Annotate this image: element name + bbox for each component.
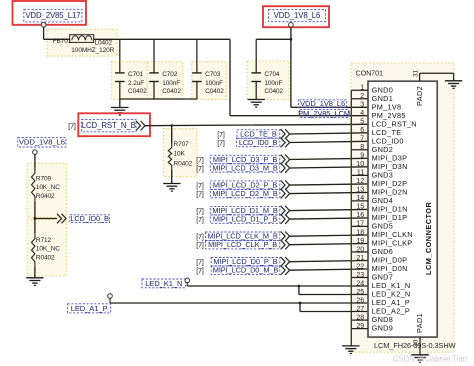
wire LCD_TE_B to pin 6 (290, 133, 368, 134)
highlight box around R712 (27, 220, 66, 276)
svg-text:23: 23 (356, 272, 364, 279)
capacitor C702 100nF (149, 39, 159, 99)
junction LED_K1/K2 (298, 285, 301, 288)
svg-text:[7]: [7] (68, 123, 76, 130)
svg-text:R0402: R0402 (174, 160, 193, 167)
wire R707 to ground (171, 169, 173, 183)
pin 15 MIPI_D1N (356, 204, 407, 214)
wire LED_K1_N to pin 24 (187, 285, 368, 287)
svg-text:15: 15 (356, 204, 364, 211)
net label MIPI_LCD_D2_M_B (210, 189, 279, 198)
ground for pin 31 (445, 81, 462, 89)
pin 27 LED_A2_P (356, 306, 410, 316)
chevron LCD_ID0_B left (57, 214, 66, 224)
wire MIPI_LCD_D3_P_B to pin 9 (290, 158, 368, 159)
chevron MIPI_LCD_D1_M_B (281, 206, 290, 216)
ground below C701-C703 (111, 108, 128, 116)
port circle LED_K1_N (185, 278, 190, 283)
svg-text:100nF: 100nF (162, 80, 180, 87)
pin 16 MIPI_D1P (356, 212, 407, 222)
wire VDD_2V85 vertical (43, 27, 45, 40)
connector CON701 body (368, 81, 437, 337)
wire to R707 (171, 126, 173, 144)
pin 28 GND8 (351, 314, 393, 324)
chevron MIPI_LCD_D2_P_B (281, 180, 290, 190)
svg-text:100nF: 100nF (264, 80, 282, 87)
svg-text:VDD_2V85_L17: VDD_2V85_L17 (25, 11, 80, 20)
ground below bus (342, 346, 359, 354)
svg-text:R707: R707 (174, 141, 190, 148)
svg-text:LCD_ID0_B: LCD_ID0_B (239, 138, 278, 147)
svg-text:10: 10 (356, 161, 364, 168)
svg-text:10K: 10K (174, 151, 186, 158)
chevron MIPI_LCD_D3_M_B (281, 163, 290, 173)
net label VDD_1V8_L6 left (18, 138, 66, 147)
svg-text:R709: R709 (36, 175, 52, 182)
net label PM_2V85_LCM (298, 109, 350, 118)
svg-text:CSDN @Gabriel.Tian: CSDN @Gabriel.Tian (393, 355, 467, 364)
wire to ground (119, 99, 121, 108)
pin 20 GND6 (351, 246, 393, 256)
svg-text:3: 3 (360, 102, 364, 109)
chevron MIPI_LCD_CLK_P_B (281, 240, 290, 250)
svg-text:14: 14 (356, 195, 364, 202)
svg-text:LCM_CONNECTOR: LCM_CONNECTOR (424, 202, 433, 275)
svg-text:13: 13 (356, 187, 364, 194)
svg-text:LCD_RST_N_B: LCD_RST_N_B (82, 121, 136, 130)
svg-text:VDD_1V8_L6: VDD_1V8_L6 (300, 99, 345, 108)
pin 14 GND4 (351, 195, 393, 205)
svg-text:21: 21 (356, 255, 364, 262)
svg-text:PAD2: PAD2 (415, 86, 424, 106)
svg-text:[7]: [7] (196, 157, 204, 164)
pin 5 LCD_RST_N (360, 119, 417, 129)
wire MIPI_LCD_CLK_P_B to pin 19 (290, 244, 368, 245)
wire PM_2V85 rail (94, 38, 230, 40)
highlight box around R707 (164, 129, 197, 177)
junction VDD_1V8 branch (290, 38, 293, 41)
pin 29 GND9 (351, 323, 393, 333)
wire PM_2V85 to pin 4 (230, 115, 368, 117)
chevron MIPI_LCD_D0_M_B (281, 265, 290, 275)
port circle VDD_1V8_L6 left (33, 150, 38, 155)
chevron LCD_ID0_B (281, 138, 290, 148)
highlight box around C704 (247, 61, 289, 99)
wire LED_A1_P to pin 26 (110, 302, 368, 304)
svg-text:26: 26 (356, 297, 364, 304)
svg-text:19: 19 (356, 238, 364, 245)
svg-text:C701: C701 (128, 71, 144, 78)
svg-text:[7]: [7] (196, 192, 204, 199)
svg-text:[7]: [7] (196, 209, 204, 216)
wire LED_A1_P drop (109, 298, 111, 303)
svg-text:6: 6 (360, 127, 364, 134)
junction R707 tap (171, 124, 173, 126)
svg-text:VDD_1V8_L6: VDD_1V8_L6 (274, 11, 321, 20)
svg-text:2.2uF: 2.2uF (128, 80, 144, 87)
ferrite bead FB701 (70, 35, 94, 43)
highlight box around R709 (27, 163, 66, 217)
svg-text:C0402: C0402 (128, 88, 147, 95)
capacitor C703 100nF (192, 39, 202, 99)
svg-text:27: 27 (356, 306, 364, 313)
chevron MIPI_LCD_D3_P_B (281, 155, 290, 165)
red marker box around VDD_2V85_L17 (13, 1, 87, 25)
wire R712 to ground (34, 267, 36, 278)
net label MIPI_LCD_D1_M_B (210, 206, 279, 215)
pin 3 PM_1V8 (360, 102, 401, 112)
net label MIPI_LCD_D1_P_B (210, 215, 279, 224)
resistor R712 (32, 233, 35, 267)
chevron MIPI_LCD_D2_M_B (281, 189, 290, 199)
svg-text:[7]: [7] (217, 140, 225, 147)
svg-text:MIPI_LCD_D2_M_B: MIPI_LCD_D2_M_B (212, 189, 278, 198)
wire MIPI_LCD_D3_M_B to pin 10 (290, 167, 368, 168)
wire MIPI_LCD_D2_P_B to pin 12 (290, 184, 368, 185)
wire MIPI_LCD_D0_P_B to pin 21 (290, 261, 368, 262)
net label LCD_RST_N_B (82, 120, 137, 132)
pin 23 GND7 (351, 272, 393, 282)
svg-text:LED_A1_P: LED_A1_P (71, 304, 108, 313)
wire cap ground bus (120, 98, 197, 100)
wire VDD_1V8 vertical (290, 27, 292, 107)
pin 24 LED_K1_N (356, 280, 410, 290)
chevron MIPI_LCD_D1_P_B (281, 214, 290, 224)
pin 17 GND5 (351, 221, 393, 231)
svg-text:18: 18 (356, 229, 364, 236)
port circle VDD_2V85_L17 (41, 22, 46, 27)
ground for pin 30 (411, 355, 428, 363)
svg-text:C702: C702 (162, 71, 178, 78)
svg-text:[7]: [7] (196, 268, 204, 275)
svg-text:MIPI_LCD_D0_M_B: MIPI_LCD_D0_M_B (213, 266, 279, 275)
wire branch to pin 27 (300, 311, 368, 313)
svg-text:31: 31 (413, 69, 420, 77)
pin 13 MIPI_D2N (356, 187, 407, 197)
highlight box around CON701 (351, 63, 454, 352)
highlight box around C702 (147, 62, 183, 100)
svg-text:10K_NC: 10K_NC (36, 184, 60, 191)
port circle LED_A1_P (108, 294, 113, 299)
svg-text:17: 17 (356, 221, 364, 228)
net label VDD_1V8_L6 top (269, 9, 326, 21)
svg-text:1: 1 (360, 85, 364, 92)
svg-text:12: 12 (356, 178, 364, 185)
svg-text:[7]: [7] (217, 132, 225, 139)
highlight box around FB701 (47, 29, 117, 56)
pin 30 PAD1 (413, 337, 421, 355)
net label LED_A1_P (68, 304, 111, 313)
svg-text:C703: C703 (205, 71, 221, 78)
net label MIPI_LCD_D3_M_B (210, 163, 279, 172)
svg-text:PM_2V85_LCM: PM_2V85_LCM (298, 109, 350, 118)
pin 31 PAD2 (413, 69, 454, 81)
pin 22 MIPI_D0N (356, 263, 407, 273)
wire LED_K1_N drop (186, 283, 188, 287)
net label VDD_2V85_L17 (24, 9, 82, 22)
svg-text:MIPI_LCD_D1_P_B: MIPI_LCD_D1_P_B (213, 215, 277, 224)
svg-text:[7]: [7] (196, 183, 204, 190)
capacitor C701 2.2uF (115, 39, 125, 99)
svg-text:24: 24 (356, 280, 364, 287)
net label MIPI_LCD_D3_P_B (210, 155, 279, 164)
wire branch to pin 27 vertical (299, 303, 301, 312)
pin 2 GND1 (351, 93, 393, 103)
wire VDD_2V85 to FB701 (44, 38, 70, 40)
net label LCD_ID0_B left (70, 214, 110, 223)
pin 21 MIPI_D0P (356, 255, 407, 265)
pin 9 MIPI_D3P (360, 153, 407, 163)
pin 25 LED_K2_N (356, 289, 410, 299)
net label MIPI_LCD_D0_P_B (211, 257, 280, 266)
pin 8 GND2 (351, 144, 393, 154)
junction LED_A1/A2 (299, 302, 302, 305)
svg-text:16: 16 (356, 212, 364, 219)
svg-text:100nF: 100nF (205, 80, 223, 87)
highlight box around C703 (192, 62, 227, 100)
svg-text:7: 7 (360, 136, 364, 143)
svg-text:[7]: [7] (196, 243, 204, 250)
wire branch to C704 (256, 38, 291, 40)
svg-text:PAD1: PAD1 (415, 313, 424, 333)
svg-text:R0402: R0402 (36, 254, 55, 261)
wire PM_1V8 to pin 3 (291, 106, 368, 108)
svg-text:R712: R712 (36, 237, 52, 244)
wire MIPI_LCD_D2_M_B to pin 13 (290, 192, 368, 193)
red marker box around VDD_1V8_L6 (263, 6, 329, 27)
wire LCD_RST_N to pin 5 (145, 124, 368, 125)
pin 6 LCD_TE (360, 127, 401, 137)
chevron MIPI_LCD_CLK_M_B (281, 231, 290, 241)
svg-text:FB701: FB701 (53, 38, 72, 45)
resistor R707 (168, 144, 171, 170)
svg-text:[7]: [7] (196, 260, 204, 267)
net label LCD_TE_B (237, 129, 280, 138)
svg-text:LED_K1_N: LED_K1_N (145, 279, 182, 288)
net label LCD_ID0_B (236, 138, 279, 147)
wire LCD_ID0_B to pin 7 (290, 141, 368, 142)
wire PM_2V85 vertical (229, 39, 231, 115)
wire branch to pin 25 (299, 294, 368, 296)
pin 12 MIPI_D2P (356, 178, 407, 188)
net label MIPI_LCD_CLK_P_B (205, 240, 279, 249)
net label VDD_1V8_L6 pin3 (299, 99, 347, 108)
svg-text:9: 9 (360, 153, 364, 160)
svg-text:28: 28 (356, 314, 364, 321)
wire MIPI_LCD_D1_M_B to pin 15 (290, 209, 368, 210)
svg-text:100MHZ_120R: 100MHZ_120R (71, 47, 114, 54)
wire to LCD_ID0_B label (35, 218, 57, 220)
svg-text:22: 22 (356, 263, 364, 270)
chevron LCD_RST_N_B (136, 121, 145, 131)
pin 4 PM_2V85 (360, 110, 405, 120)
svg-text:CON701: CON701 (356, 68, 383, 77)
net label MIPI_LCD_D2_P_B (210, 181, 279, 190)
svg-text:5: 5 (360, 119, 364, 126)
wire MIPI_LCD_CLK_M_B to pin 18 (290, 235, 368, 236)
pin 7 LCD_ID0 (360, 136, 403, 146)
resistor R709 (32, 168, 35, 202)
svg-text:C0402: C0402 (162, 88, 181, 95)
wire ground bus (350, 90, 352, 346)
junction LCD_ID0 tap (34, 217, 37, 220)
chevron LCD_TE_B (281, 129, 290, 139)
svg-text:L0402: L0402 (95, 40, 113, 47)
svg-text:MIPI_LCD_CLK_P_B: MIPI_LCD_CLK_P_B (208, 240, 277, 249)
svg-text:2: 2 (360, 93, 364, 100)
wire to R709 (34, 154, 36, 168)
wire branch to pin 25 vertical (298, 286, 300, 295)
ground below R707 (163, 184, 180, 192)
chevron MIPI_LCD_D0_P_B (281, 257, 290, 267)
svg-text:MIPI_LCD_D3_M_B: MIPI_LCD_D3_M_B (212, 163, 278, 172)
svg-text:10K_NC: 10K_NC (36, 246, 60, 253)
svg-text:11: 11 (357, 170, 364, 177)
svg-text:C704: C704 (264, 71, 280, 78)
net label MIPI_LCD_D0_M_B (211, 266, 280, 275)
svg-text:R0402: R0402 (36, 193, 55, 200)
pin 10 MIPI_D3N (356, 161, 407, 171)
svg-text:[7]: [7] (196, 234, 204, 241)
svg-text:4: 4 (360, 110, 364, 117)
port circle VDD_1V8_L6 (289, 23, 294, 28)
ground below R712 (26, 278, 43, 286)
wire MIPI_LCD_D1_P_B to pin 16 (290, 218, 368, 219)
svg-text:VDD_1V8_L6: VDD_1V8_L6 (19, 138, 65, 147)
svg-text:LCM_FH26-39S-0.3SHW: LCM_FH26-39S-0.3SHW (374, 341, 456, 350)
pin 1 GND0 (351, 85, 393, 95)
red marker box around LCD_RST_N_B (78, 113, 150, 136)
svg-text:C0402: C0402 (264, 88, 283, 95)
net label LED_K1_N (142, 279, 186, 288)
svg-text:8: 8 (360, 144, 364, 151)
highlight box around C701 (112, 62, 149, 100)
net label MIPI_LCD_CLK_M_B (205, 232, 279, 241)
svg-text:[7]: [7] (196, 166, 204, 173)
svg-text:29: 29 (356, 323, 364, 330)
svg-text:C0402: C0402 (205, 88, 224, 95)
capacitor C704 100nF (251, 39, 261, 99)
svg-text:LCD_ID0_B: LCD_ID0_B (70, 214, 109, 223)
pin 18 MIPI_CLKN (356, 229, 412, 239)
ground below C704 (248, 100, 265, 108)
svg-text:[7]: [7] (196, 217, 204, 224)
svg-text:20: 20 (356, 246, 364, 253)
svg-text:GND9: GND9 (372, 324, 393, 333)
svg-text:25: 25 (356, 289, 364, 296)
pin 11 GND3 (351, 170, 393, 180)
wire R709 to R712 (34, 202, 36, 234)
wire MIPI_LCD_D0_M_B to pin 22 (290, 269, 368, 270)
pin 26 LED_A1_P (356, 297, 410, 307)
pin 19 MIPI_CLKP (356, 238, 412, 248)
